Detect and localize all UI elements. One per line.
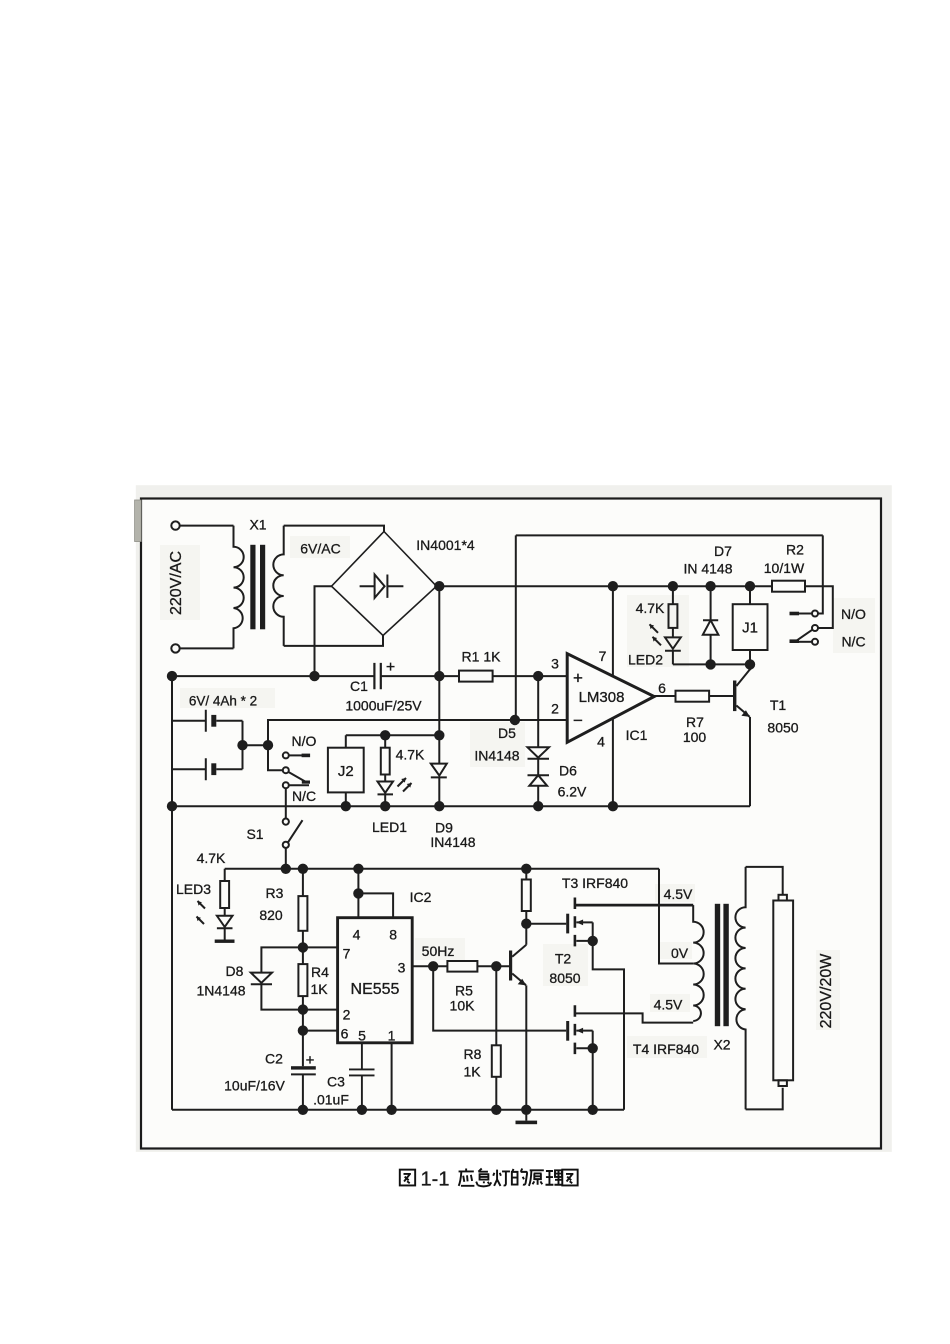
node C2 bottom [299,1106,307,1114]
svg-text:C1: C1 [350,678,368,694]
resistor above T2 [525,869,527,924]
svg-text:D7: D7 [714,543,732,559]
svg-text:1-1: 1-1 [421,1169,450,1191]
diode D8 loop [251,947,303,1009]
node D9 top on C1 rail [435,672,443,680]
relay coil J1 [733,604,768,650]
svg-text:6: 6 [341,1026,349,1042]
wire secondary bottom to bridge [284,636,383,646]
wire J2 top row [346,734,440,736]
svg-text:6V/AC: 6V/AC [300,541,340,557]
svg-text:6.2V: 6.2V [558,784,587,800]
transistor Q4 source stubs [576,1031,592,1049]
node battery mid left [238,741,246,749]
svg-text:5: 5 [358,1028,366,1044]
wire R2 right and drop to common [805,586,833,628]
svg-text:D5: D5 [498,725,516,741]
wire to contact common [268,745,283,770]
node bridge right corner [435,582,443,590]
wire [180,525,234,527]
node R8 bottom [492,1106,500,1114]
transformer X2 primary winding [693,905,704,1021]
relay contact common arm (J1) [812,625,818,631]
wire LED2 bottom row [673,663,750,665]
wire pin7 lead [303,946,338,948]
node D9 mid [435,731,443,739]
svg-text:3: 3 [551,656,559,672]
wire R5 to T2 base [477,965,509,967]
node T2 emitter bottom [522,1106,530,1114]
resistor R1 [459,671,493,682]
resistor R2 [772,581,805,592]
svg-text:1K: 1K [310,981,328,997]
capacitor C2 [291,1066,316,1069]
wire R7 to T1 base [709,695,733,697]
svg-text:4: 4 [597,734,605,750]
wire bridge right corner down to C1 rail [437,586,440,676]
wire lamp bottom lead [746,1088,783,1110]
resistor 4.7K (LED1) [384,735,386,781]
svg-text:R3: R3 [266,885,284,901]
relay contact N/C (J2) [283,782,289,788]
svg-text:R1 1K: R1 1K [462,649,502,665]
svg-text:+: + [386,659,395,676]
node D6 bottom [534,802,542,810]
svg-text:10uF/16V: 10uF/16V [224,1078,285,1094]
svg-text:C3: C3 [327,1074,345,1090]
node T3 source [589,937,597,945]
svg-text:+: + [306,1052,315,1069]
LED1 arrows [398,778,407,787]
svg-text:N/C: N/C [292,788,316,804]
transistor Q3 IRF840 gate [566,914,569,934]
node pin3 branch [429,962,437,970]
resistor R5 [447,961,477,972]
svg-text:N/O: N/O [841,606,866,622]
svg-text:3: 3 [398,960,406,976]
diode D9 [431,676,447,806]
node T2 resistor rail [522,865,530,873]
zener chain D5 [528,676,550,759]
wire [180,647,234,649]
switch S1 [283,819,289,825]
svg-text:1000uF/25V: 1000uF/25V [345,698,422,714]
transformer X1 secondary winding [273,526,283,646]
node T4 source bottom [589,1106,597,1114]
node T1 collector [746,660,754,668]
svg-text:R8: R8 [464,1046,482,1062]
svg-text:4.7K: 4.7K [636,600,665,616]
transformer X2 secondary winding [735,867,745,1110]
svg-text:8: 8 [389,927,397,943]
capacitor C1 [374,663,380,689]
svg-text:R7: R7 [686,714,704,730]
svg-text:−: − [573,711,583,730]
transformer X1 core [251,546,254,629]
svg-text:8050: 8050 [767,720,798,736]
LED3 terminal bar [215,940,235,943]
relay contact N/O (J2) [283,752,289,758]
wire pin7 up to rail [612,586,614,676]
svg-text:J2: J2 [338,763,354,780]
svg-text:R5: R5 [455,983,473,999]
wire T2 collector to T3 gate [526,923,566,925]
svg-text:IN4001*4: IN4001*4 [416,537,475,553]
AC terminal bottom [171,644,179,652]
IC NE555 box [338,918,413,1043]
node pin3 junction [534,672,542,680]
wire T4 source down [592,1048,594,1110]
svg-text:LM308: LM308 [579,689,625,706]
svg-text:T4 IRF840: T4 IRF840 [633,1041,699,1057]
svg-text:IN4148: IN4148 [430,834,475,850]
svg-text:4.7K: 4.7K [197,850,226,866]
svg-text:IN 4148: IN 4148 [683,561,732,577]
battery cell 1 [172,710,206,732]
wire to pin2 rail [268,720,567,745]
svg-text:220V/20W: 220V/20W [818,953,835,1029]
LED2 arrows [650,624,659,633]
resistor 4.7K (LED3) [224,869,226,916]
LED D LED2 [665,637,681,664]
svg-text:X1: X1 [249,517,266,533]
wire T3 source to bottom rail [593,941,624,1110]
node T2 collector [522,920,530,928]
node pin1 bottom [387,1106,395,1114]
svg-text:100: 100 [683,729,707,745]
wire bottom rail [172,1109,624,1111]
node C1 rail left [168,672,176,680]
wire bottom section top rail [225,868,659,870]
node pin2 junction [511,716,519,724]
wire left vertical long [171,676,173,1110]
svg-text:IN4148: IN4148 [474,748,519,764]
wire N/C down to S1 [285,788,287,818]
svg-text:D8: D8 [226,963,244,979]
node bridge-left-corner on C1 rail [310,672,318,680]
svg-text:1K: 1K [463,1064,481,1080]
node R3 rail [299,865,307,873]
wire pin4 down to rail [612,717,614,806]
svg-text:10/1W: 10/1W [764,560,805,576]
node C3 bottom [358,1106,366,1114]
transistor Q4 channel [574,1005,577,1055]
node pin6 [299,1026,307,1034]
svg-text:7: 7 [599,648,607,664]
node 4.7K LED2 top [669,582,677,590]
svg-text:4.7K: 4.7K [396,747,425,763]
svg-text:NE555: NE555 [351,981,400,998]
C1 rail / pin3 wire [172,675,567,677]
svg-text:S1: S1 [246,826,263,842]
resistor R8 [495,966,497,1110]
node LED1 bottom [381,802,389,810]
diode D7 [703,586,719,664]
svg-text:LED1: LED1 [372,819,407,835]
node D9 bottom [435,802,443,810]
svg-text:R2: R2 [786,542,804,558]
transistor Q2 8050 [509,951,512,981]
svg-text:820: 820 [259,907,283,923]
node J2 bottom [342,802,350,810]
relay contact N/O (J1) [812,611,818,617]
wire top supply rail [516,534,823,536]
wire 555 pin4 pin8 supply [358,869,393,918]
svg-text:6V/ 4Ah * 2: 6V/ 4Ah * 2 [189,694,257,709]
svg-text:2: 2 [551,701,559,717]
svg-text:D6: D6 [559,763,577,779]
node battery mid right [264,741,272,749]
node D7 bottom [706,660,714,668]
wire gate line to T4 [433,966,566,1030]
svg-text:+: + [573,669,583,688]
svg-text:LED2: LED2 [628,652,663,668]
LED D LED1 [378,782,394,807]
node pin7 [299,943,307,951]
node 555 supply rail [354,865,362,873]
transistor Q T1 8050 [733,681,736,712]
resistor R4 [302,947,304,1009]
node D7 top [706,582,714,590]
svg-text:R4: R4 [311,964,329,980]
svg-text:1: 1 [388,1028,396,1044]
wire lamp top lead [746,867,783,895]
wire right rail y586 [439,585,772,587]
svg-text:2: 2 [343,1007,351,1023]
bridge inner diode [360,575,404,598]
svg-text:LED3: LED3 [176,881,211,897]
ground [525,1110,527,1121]
transformer X1 primary winding [234,526,244,649]
wire secondary top to bridge [284,526,384,532]
wire battery right column [242,721,244,769]
wire battery mid link [243,744,269,746]
caption figure 1-1 [400,1170,415,1186]
resistor R3 [302,869,304,948]
svg-text:0V: 0V [671,945,689,961]
wire S1 to rail [285,848,287,869]
svg-text:T3 IRF840: T3 IRF840 [562,875,628,891]
node pin7 rail [609,582,617,590]
relay coil J2 [328,748,364,793]
svg-text:50Hz: 50Hz [422,943,455,959]
bridge rectifier diamond [332,532,437,636]
node pin4 branch [354,889,362,897]
LED3 arrows [198,901,206,909]
LED D LED3 [217,916,233,940]
svg-text:7: 7 [343,946,351,962]
transistor Q4 drain line 4.5V [575,1013,693,1022]
svg-text:IC1: IC1 [626,727,648,743]
node pin4 rail [609,802,617,810]
svg-text:C2: C2 [265,1051,283,1067]
svg-text:N/C: N/C [841,634,865,650]
svg-text:220V/AC: 220V/AC [168,551,185,615]
transistor Q3 channel [574,898,577,949]
wire pin3 lead [412,965,447,967]
capacitor C3 [349,1043,375,1110]
node T4 source [589,1044,597,1052]
op-amp U1 LM308 [567,654,654,743]
wire 0V tap [659,869,693,964]
transformer X2 core [716,905,719,1025]
transistor Q3 drain line 4.5V [575,904,693,907]
transistor Q4 IRF840 gate [566,1021,569,1041]
node J1 top [746,582,754,590]
svg-text:4.5V: 4.5V [654,997,683,1013]
svg-text:T1: T1 [770,697,787,713]
resistor 4.7K (LED2) [672,586,674,637]
resistor R7 [676,691,710,702]
svg-text:IC2: IC2 [410,889,432,905]
battery mid rail [172,805,750,807]
svg-text:X2: X2 [713,1037,730,1053]
lamp tube 220V/20W [779,895,787,901]
wire long vertical from top rail to pin2 node [515,535,517,720]
wire pin6 lead [303,1010,338,1067]
svg-text:8050: 8050 [549,970,580,986]
wire bridge left corner down to C1 rail [315,586,332,676]
node T2 base [492,962,500,970]
svg-text:N/O: N/O [292,733,317,749]
svg-text:J1: J1 [742,620,758,637]
relay contact N/C (J1) [812,639,818,645]
node 4.7K top [381,731,389,739]
svg-text:.01uF: .01uF [313,1092,349,1108]
node S1 rail [282,865,290,873]
battery cell 2 [172,758,206,780]
wire pin1 down [391,1043,393,1110]
node pin2 [299,1005,307,1013]
svg-text:4: 4 [353,927,361,943]
wire pin2 lead [303,1009,338,1011]
node battery rail left [168,802,176,810]
svg-text:10K: 10K [450,998,476,1014]
svg-text:1N4148: 1N4148 [196,983,245,999]
svg-text:4.5V: 4.5V [664,886,693,902]
AC terminal top [171,521,179,529]
wire top rail drop to N/O [818,535,823,613]
zener D6 [528,759,550,806]
transistor Q3 source stubs [576,922,592,941]
svg-text:T2: T2 [555,951,572,967]
svg-text:6: 6 [658,680,666,696]
relay contact common arm (J2) [283,767,289,773]
wire pin6 output [654,695,675,697]
